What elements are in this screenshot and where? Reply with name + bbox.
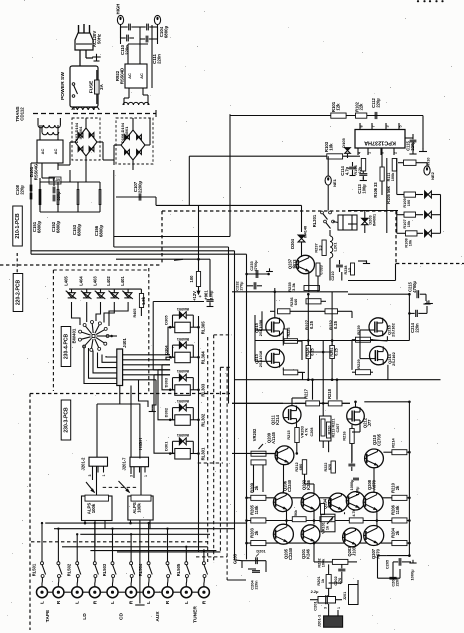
- wire: [116, 258, 199, 260]
- switch contact above jack 4: [94, 523, 96, 562]
- connector J201-2: [89, 457, 108, 466]
- wire: [96, 404, 98, 457]
- pin 7: [371, 123, 373, 130]
- junction dots bus: [41, 522, 43, 524]
- svg-text:D303: D303: [164, 377, 169, 387]
- potentiometer ALPS 100k (L): [82, 496, 113, 521]
- wire: [408, 402, 410, 452]
- resistor R202 100k: [332, 559, 348, 564]
- transistor Q204b J103: [346, 492, 364, 510]
- svg-text:220µ: 220µ: [375, 98, 380, 108]
- lamp PL1: [117, 15, 123, 24]
- resistor (gate) R223: [284, 339, 298, 344]
- relay RL305: [175, 322, 191, 333]
- transistor Q204 J103: [329, 493, 348, 512]
- svg-text:100µ: 100µ: [208, 290, 213, 300]
- svg-text:C208: C208: [310, 428, 314, 437]
- resistor R208 56k: [320, 517, 335, 522]
- svg-text:CD: CD: [119, 613, 125, 620]
- relay RL303: [175, 385, 191, 396]
- wire: [94, 521, 96, 547]
- wire: [232, 291, 348, 293]
- resistor R217: [306, 401, 320, 406]
- resistor R110 (lamp NE2): [404, 160, 417, 165]
- wire jack rail: [42, 591, 204, 593]
- capacitor C113 100u: [359, 173, 367, 175]
- wire: [69, 142, 71, 165]
- svg-text:R229: R229: [356, 358, 361, 368]
- switch contact above jack 5: [112, 529, 114, 562]
- wire rail: [247, 542, 410, 544]
- wire: [189, 155, 326, 157]
- svg-text:3: 3: [88, 474, 92, 476]
- transistor Q207 A970: [364, 526, 384, 546]
- wire: [130, 386, 132, 475]
- svg-text:RS504G: RS504G: [33, 163, 38, 180]
- svg-text:220n: 220n: [396, 577, 400, 586]
- AC plug P1: [75, 33, 93, 50]
- svg-text:4700µ: 4700µ: [412, 281, 417, 293]
- resistor R210 2k: [392, 495, 407, 500]
- switch contact above jack 10: [203, 551, 205, 562]
- svg-text:R225: R225: [287, 328, 291, 337]
- svg-text:L405: L405: [63, 276, 68, 286]
- svg-text:D305: D305: [164, 315, 169, 325]
- diode D301 IN4001: [179, 438, 182, 445]
- svg-text:RL502: RL502: [67, 563, 72, 576]
- RCA jack R: [89, 587, 100, 598]
- wire: [40, 211, 100, 213]
- resistor R235 3.3k: [304, 286, 320, 291]
- wire: [106, 335, 117, 337]
- svg-text:0.25: 0.25: [335, 347, 339, 355]
- svg-text:7: 7: [371, 125, 375, 127]
- resistor R211: [321, 504, 325, 515]
- svg-text:RL302: RL302: [201, 413, 206, 426]
- capacitor C205 1000u: [387, 555, 410, 557]
- svg-text:680: 680: [299, 464, 303, 470]
- capacitor C233 4700u: [245, 273, 248, 276]
- svg-text:HIGH: HIGH: [116, 4, 121, 15]
- svg-text:IN4001: IN4001: [176, 307, 189, 311]
- pin 6: [380, 148, 382, 155]
- wire: [355, 402, 357, 407]
- svg-text:R217: R217: [304, 388, 309, 398]
- relay RL301: [175, 449, 191, 460]
- capacitor C109: [126, 35, 128, 42]
- svg-text:R405: R405: [133, 309, 137, 318]
- svg-text:100µ: 100µ: [361, 184, 366, 194]
- connector J201-7: [130, 457, 149, 467]
- svg-text:620: 620: [328, 464, 332, 470]
- svg-text:J201-1: J201-1: [317, 614, 322, 627]
- ground: [92, 56, 100, 58]
- svg-text:1.8k: 1.8k: [141, 296, 146, 305]
- switch contact above jack 8: [167, 529, 169, 562]
- switch contact above jack 1: [41, 523, 43, 562]
- svg-text:RL305: RL305: [201, 321, 206, 334]
- diode D105: [345, 148, 351, 151]
- svg-text:1Ω: 1Ω: [348, 267, 352, 272]
- svg-text:6800µ: 6800µ: [77, 223, 82, 236]
- svg-text:L: L: [184, 601, 189, 604]
- capacitor C153 6800u: [76, 189, 78, 197]
- svg-text:D301: D301: [164, 441, 169, 451]
- pin 4: [357, 148, 359, 155]
- svg-text:LD: LD: [82, 613, 88, 620]
- svg-text:HIGH: HIGH: [138, 437, 144, 450]
- svg-text:FUSE: FUSE: [89, 81, 95, 94]
- potentiometer VR101 1k: [321, 514, 335, 532]
- svg-text:4.7k: 4.7k: [352, 508, 356, 516]
- page header marks: [417, 0, 419, 2]
- svg-text:J201-2: J201-2: [81, 457, 86, 471]
- svg-text:A1145: A1145: [271, 431, 276, 443]
- junction: [408, 497, 411, 500]
- relay R922 RS504D: [125, 64, 147, 88]
- wire output node: [322, 341, 324, 380]
- resistor R233: [278, 309, 291, 314]
- capacitor C204 220n: [252, 570, 260, 572]
- svg-text:4.7k: 4.7k: [305, 427, 309, 435]
- wire rail left: [246, 498, 248, 543]
- transistor Q212 J77: [347, 407, 365, 425]
- svg-text:3: 3: [130, 475, 134, 477]
- capacitor C108: [29, 185, 31, 192]
- transistor Q208 A970: [363, 492, 383, 512]
- switch SW1 contacts: [72, 83, 75, 86]
- lamp PL2: [154, 15, 160, 24]
- RCA jack R: [53, 587, 64, 598]
- wire: [139, 380, 149, 407]
- RCA jack L: [181, 587, 192, 598]
- resistor 0.033: [316, 263, 320, 276]
- svg-text:IN4001: IN4001: [176, 399, 189, 403]
- ground: [363, 263, 370, 265]
- transistor Q215 2SK1058: [266, 318, 284, 336]
- svg-text:C2240: C2240: [287, 479, 292, 492]
- transformer T1 secondary (relay side): [123, 102, 128, 105]
- jog: [174, 259, 183, 260]
- svg-text:3.3k: 3.3k: [291, 282, 296, 290]
- relay RL201 coil box: [338, 215, 357, 230]
- svg-text:6800µ: 6800µ: [37, 220, 42, 233]
- RCA jack L: [72, 587, 83, 598]
- svg-text:1000µ: 1000µ: [350, 480, 354, 491]
- resistor R201 1k: [326, 575, 331, 589]
- pin 5: [398, 123, 400, 130]
- resistor R218: [328, 401, 342, 406]
- wire: [313, 544, 315, 562]
- wire bus: [54, 528, 235, 530]
- svg-text:C210: C210: [331, 271, 335, 280]
- transistor Q210 C2705: [365, 449, 384, 468]
- wire bus: [80, 533, 210, 535]
- diode D203 IN4001: [362, 218, 368, 221]
- svg-text:100k: 100k: [137, 503, 142, 513]
- svg-text:3: 3: [385, 125, 389, 127]
- svg-text:3A: 3A: [99, 83, 104, 89]
- capacitor C215 4700u: [408, 293, 411, 296]
- svg-text:RL503: RL503: [102, 563, 107, 576]
- svg-text:RS504D: RS504D: [119, 68, 124, 84]
- transistor Q213 2SA1016: [266, 349, 284, 367]
- wire bottom rail: [113, 170, 115, 247]
- pcb boundary dashed: [103, 486, 138, 488]
- capacitor C232 270u: [253, 282, 255, 289]
- svg-text:2k: 2k: [254, 485, 259, 490]
- svg-text:2: 2: [393, 152, 397, 154]
- resistor R224: [283, 370, 298, 375]
- relay RL304: [175, 352, 191, 363]
- resistor R226 0.25: [306, 346, 311, 359]
- resistor R229: [356, 370, 371, 375]
- resistor R231 0.25: [330, 346, 335, 359]
- RCA jack L: [37, 587, 48, 598]
- resistor R205 110k: [251, 518, 266, 523]
- rectifier B101 RS504G: [37, 140, 63, 163]
- resistor R222 620: [331, 461, 335, 473]
- resistor R101 12k: [331, 113, 346, 118]
- svg-text:C205: C205: [386, 559, 390, 569]
- ground: [419, 151, 427, 153]
- resistor R108 10k + LED: [406, 231, 418, 236]
- svg-text:RL303: RL303: [201, 383, 206, 396]
- svg-text:IN4001: IN4001: [124, 126, 129, 140]
- switch contact above jack 3: [76, 534, 78, 561]
- wire: [348, 223, 357, 225]
- wire: [85, 118, 87, 128]
- wire rail: [247, 497, 410, 499]
- wire: [73, 107, 75, 110]
- box 6.3V: [49, 177, 61, 184]
- pcb boundary cross: [16, 253, 18, 276]
- svg-text:8: 8: [359, 125, 363, 127]
- svg-text:J103: J103: [327, 499, 332, 509]
- svg-text:2.2µ: 2.2µ: [311, 589, 319, 594]
- svg-text:K246: K246: [305, 548, 310, 558]
- svg-text:D105: D105: [341, 137, 346, 147]
- resistor R109 100 + LED D207: [404, 192, 416, 197]
- svg-text:100µ: 100µ: [356, 487, 360, 496]
- resistor R111 100k: [392, 159, 396, 172]
- svg-text:IN4001: IN4001: [373, 213, 377, 226]
- svg-text:IN4004: IN4004: [78, 126, 83, 140]
- pin 3: [385, 123, 387, 130]
- svg-text:C201: C201: [313, 600, 318, 610]
- wire: [128, 88, 130, 98]
- wire: [346, 115, 423, 117]
- wire rail B+: [114, 246, 229, 248]
- pcb boundary dashed: [0, 264, 162, 266]
- wire: [128, 43, 148, 45]
- wire: [386, 336, 388, 341]
- svg-text:J201: J201: [343, 592, 347, 600]
- svg-text:10k: 10k: [407, 220, 411, 227]
- wire: [72, 307, 81, 325]
- svg-text:50Hz: 50Hz: [97, 33, 102, 44]
- transformer T1 primary: [72, 107, 77, 110]
- resistor R405 1.8k: [140, 289, 142, 293]
- resistor 100: [196, 272, 200, 287]
- svg-text:RL201: RL201: [312, 214, 317, 227]
- wire: [92, 473, 94, 481]
- svg-text:L: L: [40, 601, 45, 604]
- svg-text:R214: R214: [391, 437, 396, 447]
- resistor R239: [356, 337, 371, 342]
- wire: [344, 512, 346, 514]
- resistor R225: [283, 329, 287, 341]
- RCA jack L: [143, 587, 154, 598]
- svg-text:100k: 100k: [322, 558, 326, 567]
- wire bus J401 to relays: [123, 354, 170, 356]
- resistor R209 2k: [251, 495, 266, 500]
- svg-text:210-1-PCB: 210-1-PCB: [15, 213, 21, 239]
- svg-text:2SK1058: 2SK1058: [258, 319, 263, 336]
- svg-text:4700µ: 4700µ: [253, 260, 258, 272]
- svg-text:CD112: CD112: [20, 107, 25, 121]
- svg-text:POWER SW: POWER SW: [60, 72, 66, 100]
- svg-text:IN4001: IN4001: [176, 369, 189, 373]
- svg-text:TAPE: TAPE: [45, 609, 51, 622]
- svg-text:+: +: [199, 295, 202, 300]
- transistor Q203 J103: [343, 528, 362, 547]
- resistor R107 10k + LED: [404, 212, 416, 217]
- transistor Q202 K246: [301, 493, 320, 512]
- wire: [283, 465, 285, 493]
- svg-text:2SJ162: 2SJ162: [391, 351, 396, 365]
- wire: [304, 474, 306, 484]
- wire: [298, 340, 303, 342]
- svg-text:L404: L404: [79, 276, 84, 286]
- potentiometer ALPS 100k (R): [128, 496, 153, 520]
- wire: [41, 163, 43, 178]
- svg-text:BW401: BW401: [72, 328, 77, 343]
- wire: [360, 329, 369, 331]
- wire bus to J401: [84, 345, 117, 384]
- svg-text:100k: 100k: [391, 172, 395, 181]
- svg-text:4.7µ: 4.7µ: [344, 166, 349, 175]
- svg-text:AC: AC: [139, 73, 144, 79]
- wire rail: [247, 520, 410, 522]
- pcb label 210-1-PCB: [13, 206, 22, 246]
- RCA jack R: [162, 587, 173, 598]
- svg-text:1000µ: 1000µ: [410, 569, 415, 581]
- svg-text:9013: 9013: [292, 259, 297, 269]
- wire: [351, 340, 353, 370]
- resistor R103 10k: [327, 154, 343, 159]
- diode bridge D103-D104: [72, 118, 100, 160]
- connector J201-1: [324, 616, 343, 627]
- capacitor C115 220u: [410, 139, 417, 141]
- svg-text:220-2-PCB: 220-2-PCB: [16, 280, 22, 306]
- wire relay feeds: [168, 327, 175, 355]
- resistor R214: [392, 450, 407, 455]
- transistor Q201 K246: [301, 525, 320, 544]
- svg-text:56k: 56k: [294, 509, 298, 516]
- svg-text:100: 100: [407, 200, 411, 206]
- svg-text:1: 1: [102, 474, 106, 476]
- resistor R204 2k: [392, 541, 407, 546]
- svg-text:C2705: C2705: [376, 433, 381, 446]
- svg-text:D204: D204: [290, 238, 295, 248]
- switch contact above jack 6: [130, 534, 132, 561]
- pcb label 220-2-PCB: [13, 274, 23, 312]
- wire: [120, 27, 122, 38]
- resistor R206 110k: [392, 518, 407, 523]
- svg-text:K246: K246: [306, 479, 311, 489]
- node tick: [155, 110, 157, 117]
- svg-text:12k: 12k: [358, 166, 362, 173]
- diode D305 IN4001: [179, 312, 182, 319]
- wire: [282, 341, 284, 346]
- svg-text:IN4148: IN4148: [304, 225, 308, 238]
- svg-text:3: 3: [324, 607, 328, 609]
- wire arrow: [119, 481, 130, 493]
- svg-text:L201: L201: [333, 242, 338, 252]
- wire: [235, 559, 243, 562]
- transistor Q206 C2240: [273, 493, 292, 512]
- svg-text:L403: L403: [92, 276, 97, 286]
- svg-text:AC: AC: [127, 73, 132, 79]
- capacitor C202 270: [338, 568, 345, 570]
- svg-text:2k: 2k: [395, 485, 400, 490]
- resistor R102 22k: [356, 113, 367, 118]
- diode D303 IN4001: [179, 374, 182, 381]
- label +12V: [198, 287, 200, 292]
- resistor R203 2k: [251, 541, 266, 546]
- pcb boundary dashed: [53, 269, 149, 271]
- wire rail: [232, 402, 350, 404]
- svg-text:R106 33: R106 33: [373, 182, 378, 198]
- svg-text:G203: G203: [233, 553, 238, 564]
- svg-text:AUX: AUX: [155, 611, 161, 622]
- wire relay rail: [198, 316, 200, 552]
- switch contact above jack 7: [148, 523, 150, 562]
- resistor R236 680: [306, 299, 321, 304]
- wire: [232, 452, 275, 454]
- svg-text:IN4001: IN4001: [176, 337, 189, 341]
- svg-text:0.25: 0.25: [333, 320, 338, 329]
- resistor R238 1: [351, 263, 355, 275]
- wire: [408, 452, 410, 557]
- capacitor C206 220n: [389, 576, 396, 578]
- wire: [291, 398, 293, 406]
- transistor Q209 A1145: [275, 446, 294, 465]
- wire: [274, 288, 276, 318]
- wire arrow: [86, 482, 95, 493]
- capacitor C214 220n: [415, 310, 417, 317]
- svg-text:J201-7: J201-7: [122, 457, 127, 471]
- wire rail B-: [31, 250, 235, 252]
- svg-text:100k: 100k: [91, 503, 96, 513]
- svg-text:10k: 10k: [329, 143, 334, 151]
- svg-text:6800µ: 6800µ: [56, 220, 61, 233]
- potentiometer VR203 4.7k: [320, 416, 332, 441]
- relay RL302: [175, 415, 191, 426]
- svg-text:2SJ162: 2SJ162: [391, 322, 396, 336]
- resistor R207 56k: [292, 517, 306, 522]
- lamp NE1: [325, 176, 331, 185]
- svg-text:3.3: 3.3: [319, 245, 323, 250]
- svg-text:R218: R218: [327, 388, 332, 398]
- svg-text:220n: 220n: [414, 323, 419, 333]
- svg-text:D201: D201: [256, 550, 266, 554]
- svg-text:J401: J401: [122, 338, 127, 348]
- resistor R220: [327, 422, 331, 438]
- wire: [307, 341, 309, 346]
- svg-text:R105 56k: R105 56k: [386, 185, 391, 203]
